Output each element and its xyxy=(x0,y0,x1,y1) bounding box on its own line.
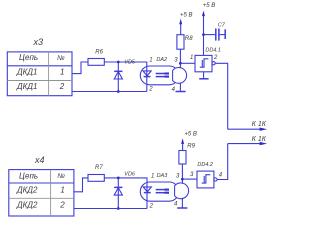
svg-text:R7: R7 xyxy=(95,165,103,171)
wire DA3 pin3 up to node xyxy=(181,179,183,184)
optocoupler DA2 xyxy=(140,57,186,93)
svg-text:ДКД1: ДКД1 xyxy=(16,67,37,76)
resistor R7 xyxy=(88,175,104,182)
logic gate DD4.1 xyxy=(190,48,221,72)
svg-text:1: 1 xyxy=(151,174,154,180)
ground DD4.1 xyxy=(199,72,208,79)
svg-text:х3: х3 xyxy=(33,37,44,47)
svg-text:1: 1 xyxy=(60,67,64,76)
svg-text:1: 1 xyxy=(190,55,193,61)
resistor R8 xyxy=(177,35,184,50)
wire DA3 pin4 down xyxy=(181,198,183,208)
wire x4 pin2 to DA3 pin2 xyxy=(74,208,147,210)
svg-text:1: 1 xyxy=(60,185,64,194)
ground DA3 pin4 xyxy=(177,207,187,209)
capacitor C7 xyxy=(204,23,226,41)
svg-text:ДКД2: ДКД2 xyxy=(16,186,38,195)
power +5V for R8 xyxy=(179,13,192,35)
wire DD4.1 output to bus xyxy=(215,63,228,129)
output arrow K1K bottom xyxy=(228,136,268,145)
svg-text:2: 2 xyxy=(59,201,65,210)
node B xyxy=(181,178,184,181)
connector table X4 xyxy=(9,170,74,216)
svg-text:2: 2 xyxy=(59,82,65,91)
svg-text:VD6: VD6 xyxy=(124,172,136,178)
diode VD6 xyxy=(114,172,136,209)
svg-text:R8: R8 xyxy=(185,36,193,42)
svg-text:2: 2 xyxy=(213,55,218,61)
svg-text:х4: х4 xyxy=(34,155,45,165)
svg-text:+5 В: +5 В xyxy=(184,132,197,138)
node diode bottom xyxy=(117,90,120,93)
svg-text:2: 2 xyxy=(149,203,154,209)
svg-text:R6: R6 xyxy=(95,49,103,55)
wire R7 to DA3 pin1 xyxy=(104,178,147,182)
svg-text:VD5: VD5 xyxy=(124,59,136,65)
svg-text:DD4.2: DD4.2 xyxy=(197,162,213,168)
svg-text:2: 2 xyxy=(148,87,153,93)
wire DA2 pin3 up to node xyxy=(179,63,181,68)
svg-text:ДКД2: ДКД2 xyxy=(16,201,38,210)
wire node to DD4.2 input xyxy=(182,178,197,180)
node A xyxy=(179,62,182,65)
svg-text:ДКД1: ДКД1 xyxy=(16,82,37,91)
svg-text:Цепь: Цепь xyxy=(19,171,38,180)
power +5V for R9 xyxy=(181,132,197,151)
wire R8 to node xyxy=(179,49,181,63)
connector table X3 xyxy=(7,52,72,96)
ground C7 xyxy=(224,29,226,39)
wire x4 pin1 to R7 xyxy=(74,178,88,192)
svg-text:Цепь: Цепь xyxy=(19,53,38,62)
node diode2 top xyxy=(117,177,120,180)
node diode top xyxy=(117,61,120,64)
wire node to DD4.1 input xyxy=(180,62,195,64)
resistor R9 xyxy=(179,151,186,165)
svg-text:К 1К: К 1К xyxy=(252,136,267,143)
svg-text:+5 В: +5 В xyxy=(203,3,216,9)
svg-text:R9: R9 xyxy=(187,144,195,150)
wire DA2 pin4 down xyxy=(179,83,181,92)
svg-text:№: № xyxy=(57,173,65,180)
svg-text:C7: C7 xyxy=(218,23,226,29)
svg-text:+5 В: +5 В xyxy=(180,13,193,19)
svg-text:1: 1 xyxy=(149,57,152,63)
svg-text:DA3: DA3 xyxy=(157,173,169,179)
logic gate DD4.2 xyxy=(190,162,223,188)
wire x3 pin2 to DA2 pin2 xyxy=(72,91,147,93)
optocoupler DA3 xyxy=(140,173,188,209)
wire x3 pin1 to R6 xyxy=(72,62,88,74)
diode VD5 xyxy=(114,59,136,91)
wire R9 to node xyxy=(181,164,183,179)
wire R6 to DA2 pin1 xyxy=(104,62,147,66)
svg-text:№: № xyxy=(57,55,65,62)
svg-text:К 1К: К 1К xyxy=(252,121,267,128)
resistor R6 xyxy=(88,59,104,66)
svg-text:DA2: DA2 xyxy=(156,57,167,63)
output arrow K1K top xyxy=(228,121,268,131)
power +5V for DD4.1 xyxy=(202,3,215,55)
wire DD4.2 output to bus xyxy=(217,144,228,180)
ground DA2 pin4 xyxy=(176,91,186,93)
node diode2 bottom xyxy=(117,207,120,210)
node +5V / C7 xyxy=(202,33,205,36)
svg-text:DD4.1: DD4.1 xyxy=(205,48,221,54)
